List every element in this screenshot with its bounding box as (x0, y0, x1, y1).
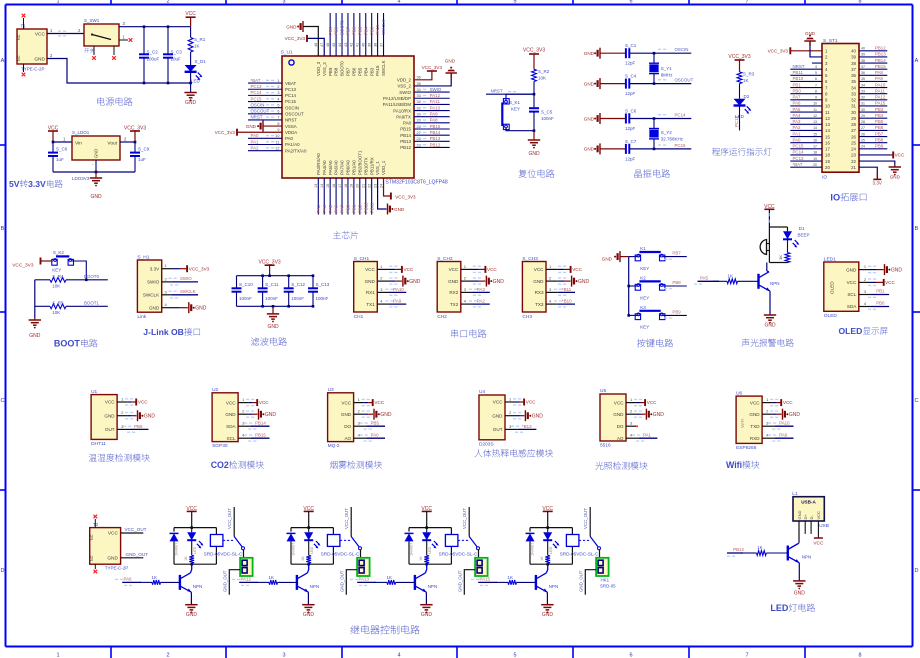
header left pin 2 GND2 (810, 41, 822, 57)
svg-text:PA6: PA6 (124, 576, 133, 581)
svg-text:10K: 10K (52, 310, 60, 315)
svg-text:NRST: NRST (793, 64, 805, 69)
emitter wire relay 4 (546, 592, 548, 605)
svg-text:VCC: VCC (813, 541, 824, 547)
svg-text:DO: DO (344, 424, 351, 429)
svg-text:15: 15 (813, 132, 817, 136)
ground GND filter (272, 306, 274, 314)
svg-text:K2: K2 (640, 276, 646, 281)
svg-text:IO: IO (822, 175, 827, 181)
svg-text:SCL: SCL (227, 436, 236, 441)
svg-text:WIFI: WIFI (740, 418, 745, 427)
svg-text:4: 4 (397, 0, 400, 5)
header left pin 11 PA5 (790, 111, 822, 113)
svg-text:*B11: *B11 (562, 287, 572, 292)
svg-text:VSS_2: VSS_2 (397, 84, 411, 89)
left rail boot (34, 280, 36, 318)
svg-text:PA9: PA9 (430, 112, 439, 117)
svg-text:47: 47 (320, 43, 324, 47)
svg-text:GND: GND (794, 591, 806, 597)
svg-text:VCC_OUT: VCC_OUT (227, 508, 232, 529)
svg-text:DO: DO (617, 424, 624, 429)
svg-text:CO2: CO2 (211, 460, 229, 470)
svg-text:28: 28 (851, 122, 856, 127)
svg-text:16: 16 (825, 140, 830, 145)
svg-text:PA15: PA15 (480, 576, 491, 581)
key K3 (629, 314, 639, 316)
svg-text:VCC: VCC (226, 400, 236, 405)
svg-text:VCC: VCC (493, 400, 503, 405)
header right pin 29 PB4 (859, 117, 887, 119)
svg-text:PB6: PB6 (875, 125, 884, 130)
svg-text:BOOT0: BOOT0 (84, 274, 99, 279)
base resistor 1K led lamp (741, 552, 757, 554)
svg-text:GND: GND (225, 412, 236, 417)
header right pin 40 PB12 (859, 50, 887, 52)
title 滤波电路 (251, 337, 259, 345)
svg-text:2: 2 (166, 653, 169, 658)
svg-text:TYPE-C-2P: TYPE-C-2P (105, 566, 129, 571)
svg-text:37: 37 (379, 43, 383, 47)
svg-text:USB-A: USB-A (801, 500, 816, 505)
svg-text:TX1: TX1 (366, 302, 375, 307)
relay 3 switch lever (458, 539, 469, 541)
svg-text:S_K2: S_K2 (53, 250, 65, 255)
svg-text:VCC: VCC (487, 267, 497, 272)
svg-text:VCC_3V3: VCC_3V3 (285, 36, 306, 41)
svg-text:37: 37 (851, 67, 856, 72)
svg-text:35: 35 (861, 77, 865, 81)
svg-text:VDD_3: VDD_3 (316, 61, 321, 76)
svg-text:PA11: PA11 (430, 99, 441, 104)
svg-text:VCC: VCC (750, 400, 760, 405)
svg-text:30: 30 (861, 108, 865, 112)
svg-text:PA13: PA13 (359, 576, 370, 581)
svg-text:37: 37 (861, 65, 865, 69)
svg-text:VCC_3V3: VCC_3V3 (12, 262, 34, 268)
svg-text:CH3: CH3 (522, 314, 532, 320)
svg-text:100nF: 100nF (265, 296, 278, 301)
svg-text:PB6: PB6 (351, 67, 356, 76)
svg-text:GND: GND (584, 81, 595, 86)
svg-text:GND: GND (144, 414, 156, 420)
svg-text:RX1: RX1 (366, 290, 375, 295)
header right pin 31 PA15 (859, 105, 887, 107)
svg-text:PB10: PB10 (793, 76, 804, 81)
svg-text:GND: GND (380, 412, 392, 418)
svg-text:VCC: VCC (404, 267, 414, 272)
svg-text:12pF: 12pF (625, 91, 636, 96)
svg-text:GND: GND (584, 116, 595, 121)
svg-text:2: 2 (277, 85, 279, 89)
net NRST wire (486, 93, 534, 95)
svg-text:PA10/RX: PA10/RX (393, 108, 411, 113)
capacitor S_C12 100nF (288, 276, 290, 289)
svg-text:S_C10: S_C10 (239, 282, 253, 287)
header left pin 13 PA3 (790, 123, 822, 125)
svg-text:PB1: PB1 (793, 82, 802, 87)
svg-text:GND: GND (584, 51, 595, 56)
svg-text:PC14: PC14 (251, 90, 263, 95)
svg-text:20: 20 (356, 184, 360, 188)
emitter to ground alarm (769, 291, 771, 315)
transistor Q1 NPN relay (179, 575, 181, 590)
svg-text:1K: 1K (194, 44, 200, 49)
title 继电器控制电路 (351, 625, 360, 633)
svg-text:1K: 1K (540, 556, 544, 561)
svg-text:39: 39 (861, 53, 865, 57)
svg-text:DHT11: DHT11 (91, 441, 106, 447)
svg-text:34: 34 (851, 85, 856, 90)
wire gnd to S_C7 (600, 148, 626, 150)
svg-text:TX3: TX3 (535, 302, 544, 307)
svg-text:PA15: PA15 (375, 24, 380, 35)
header right pin 38 PB14 (859, 62, 887, 64)
svg-text:PB5: PB5 (875, 119, 884, 124)
svg-text:KEY: KEY (52, 268, 61, 273)
svg-text:D-: D- (809, 515, 814, 520)
svg-text:PB8: PB8 (875, 137, 884, 142)
svg-text:1K: 1K (269, 575, 274, 580)
svg-text:NC: NC (90, 555, 94, 561)
terminal block HK4 (599, 550, 601, 558)
LED D1 BEEP (787, 227, 789, 231)
header S_CH2 body (437, 262, 461, 313)
svg-text:PA15: PA15 (875, 101, 886, 106)
svg-text:PA9: PA9 (393, 299, 402, 304)
capacitor S_C9 104 (134, 142, 136, 153)
svg-text:TXD: TXD (750, 424, 760, 429)
svg-text:13: 13 (314, 184, 318, 188)
svg-text:K1: K1 (640, 246, 646, 251)
svg-text:AO: AO (617, 436, 624, 441)
svg-text:1K: 1K (301, 556, 305, 561)
svg-text:AO: AO (344, 436, 351, 441)
svg-text:VCC_OUT: VCC_OUT (344, 508, 349, 529)
buzzer LS1 (768, 227, 770, 263)
svg-text:GND: GND (584, 147, 595, 152)
svg-text:TX2: TX2 (450, 302, 459, 307)
svg-text:VSS_3: VSS_3 (322, 62, 327, 76)
resistor 1K relay led 1 (191, 540, 193, 555)
svg-text:S_LDO1: S_LDO1 (72, 130, 90, 135)
svg-text:5: 5 (815, 71, 817, 75)
svg-text:23: 23 (851, 153, 856, 158)
svg-text:S_C11: S_C11 (265, 282, 279, 287)
svg-text:15: 15 (326, 184, 330, 188)
svg-text:SWIO: SWIO (430, 87, 442, 92)
svg-text:GND: GND (890, 175, 901, 180)
svg-text:*B13: *B13 (522, 424, 532, 429)
svg-text:GND: GND (303, 612, 315, 618)
svg-text:VCC: VCC (259, 400, 269, 405)
svg-text:SRD-05VDC-SL-C: SRD-05VDC-SL-C (560, 551, 599, 556)
svg-text:PC13: PC13 (793, 156, 805, 161)
svg-text:GND: GND (789, 412, 801, 418)
svg-text:12: 12 (825, 116, 830, 121)
svg-text:PB3: PB3 (369, 26, 374, 35)
svg-text:PB0: PB0 (793, 88, 802, 93)
module U4 D203S body (479, 395, 505, 440)
svg-text:18: 18 (825, 153, 830, 158)
svg-text:1K: 1K (387, 575, 392, 580)
svg-text:LED1: LED1 (824, 257, 836, 263)
svg-text:NPN: NPN (770, 281, 780, 286)
svg-text:PB7: PB7 (672, 251, 681, 256)
svg-text:VCC_OUT: VCC_OUT (462, 508, 467, 529)
svg-text:36: 36 (417, 76, 421, 80)
svg-text:PB9: PB9 (328, 67, 333, 76)
svg-text:3.3V: 3.3V (28, 179, 46, 189)
svg-text:100nF: 100nF (316, 296, 329, 301)
svg-text:NPN: NPN (549, 584, 559, 589)
header left pin 10 PA6 (790, 105, 822, 107)
svg-text:26: 26 (861, 132, 865, 136)
svg-text:PA4: PA4 (793, 113, 802, 118)
svg-text:38: 38 (861, 59, 865, 63)
display LED1 OLED body (824, 262, 859, 311)
svg-text:PC13: PC13 (251, 84, 263, 89)
svg-text:PA12/USB/DP: PA12/USB/DP (383, 96, 411, 101)
svg-text:PA1/A0: PA1/A0 (285, 142, 300, 147)
diode 1N4007 relay 1 (170, 533, 179, 541)
title 温湿度检测模块 (89, 454, 97, 462)
svg-text:PA3/RX/A0: PA3/RX/A0 (316, 153, 321, 175)
net GND_OUT wire relay 2 (346, 570, 357, 595)
svg-text:10: 10 (813, 102, 817, 106)
svg-text:PA9: PA9 (779, 433, 788, 438)
svg-text:D2: D2 (744, 94, 750, 99)
resistor S_R2 10K (532, 69, 537, 81)
svg-text:6: 6 (629, 0, 632, 5)
svg-text:GND: GND (613, 412, 624, 417)
svg-text:5V: 5V (9, 179, 20, 189)
header right pin 36 PA8 (859, 74, 887, 76)
T2 bottom NC stub (94, 564, 96, 569)
svg-text:Link: Link (137, 314, 146, 320)
svg-text:S_R1: S_R1 (194, 37, 206, 42)
svg-text:LED: LED (191, 79, 201, 84)
net PC13 wire run led (739, 106, 741, 131)
svg-text:A: A (915, 58, 919, 64)
filter top rail (237, 275, 314, 277)
header left pin 7 PB1 (790, 87, 822, 89)
svg-text:12pF: 12pF (625, 126, 636, 131)
svg-text:3: 3 (282, 653, 285, 658)
svg-text:38: 38 (373, 43, 377, 47)
svg-text:VCC_3V3: VCC_3V3 (189, 266, 210, 271)
svg-text:VCC: VCC (185, 11, 196, 17)
svg-text:PB11/RX: PB11/RX (369, 157, 374, 175)
svg-text:22: 22 (367, 184, 371, 188)
svg-text:PB11: PB11 (793, 70, 804, 75)
svg-text:GND: GND (185, 100, 197, 106)
resistor 1K relay led 2 (308, 540, 310, 555)
svg-text:D: D (1, 568, 5, 574)
svg-text:S_C4: S_C4 (625, 74, 637, 79)
svg-text:SDA: SDA (226, 424, 236, 429)
svg-text:KEY: KEY (640, 266, 649, 271)
svg-text:T2: T2 (93, 522, 99, 527)
svg-text:PA0: PA0 (793, 137, 802, 142)
header left pin 3 nc (812, 62, 822, 64)
svg-text:S_C6: S_C6 (625, 109, 637, 114)
svg-text:GND_OUT: GND_OUT (339, 570, 344, 592)
svg-text:ESP8266: ESP8266 (736, 445, 757, 451)
capacitor S_C3 10uF (167, 27, 169, 55)
svg-text:PB14: PB14 (430, 130, 441, 135)
header left pin 1 VCC_3V3 (790, 50, 822, 52)
emitter wire relay 3 (425, 592, 427, 605)
L1 pin D+ stub (804, 521, 806, 534)
net PB8 wire (663, 285, 687, 287)
svg-text:SWCLK: SWCLK (143, 293, 160, 298)
svg-text:S_CH1: S_CH1 (354, 256, 370, 262)
ground GND boot (34, 318, 36, 320)
header S_CH1 body (354, 262, 378, 313)
svg-text:U1: U1 (91, 389, 97, 395)
svg-text:VCC_OUT: VCC_OUT (125, 527, 147, 532)
base resistor 1K alarm (713, 280, 727, 282)
svg-text:1N4007: 1N4007 (531, 543, 535, 556)
svg-text:IO: IO (830, 193, 840, 203)
svg-text:J-Link OB: J-Link OB (143, 327, 184, 337)
svg-text:11: 11 (276, 140, 280, 144)
svg-text:GND: GND (602, 256, 613, 261)
svg-text:OSCIN: OSCIN (675, 47, 689, 52)
header right pin 32 PA12 (859, 99, 887, 101)
svg-text:Vin: Vin (75, 141, 82, 147)
svg-text:31: 31 (861, 102, 865, 106)
header right pin 28 PB5 (859, 123, 887, 125)
svg-text:40: 40 (362, 43, 366, 47)
resistor 1K alarm collector (787, 239, 789, 252)
svg-text:VCC: VCC (885, 280, 895, 285)
svg-text:8: 8 (858, 0, 861, 5)
svg-text:PB0/A0: PB0/A0 (346, 160, 351, 175)
svg-text:16: 16 (332, 184, 336, 188)
svg-text:8: 8 (277, 122, 279, 126)
svg-text:GND: GND (104, 413, 115, 418)
net PB12 wire led lamp (727, 552, 743, 554)
svg-text:VCC: VCC (35, 32, 46, 38)
capacitor S_C2 100uF (143, 27, 145, 55)
title 串口电路 (451, 329, 458, 337)
svg-text:PA11: PA11 (875, 88, 886, 93)
svg-text:PB12: PB12 (875, 46, 886, 51)
svg-text:44: 44 (338, 43, 342, 47)
svg-text:PC14: PC14 (675, 113, 687, 118)
svg-text:PB7: PB7 (346, 67, 351, 76)
LED relay 4 (547, 528, 549, 533)
svg-text:S_R3: S_R3 (743, 72, 755, 77)
header left pin 18 PC14 (790, 154, 822, 156)
svg-text:PC15: PC15 (793, 144, 805, 149)
wire LDO GND pin to rail (95, 160, 97, 172)
ground GND relay 1 (185, 604, 197, 606)
svg-text:18: 18 (813, 151, 817, 155)
wire S_C7 to net PC15 (630, 148, 691, 150)
svg-text:PA2: PA2 (251, 145, 260, 150)
svg-text:PA5: PA5 (793, 107, 802, 112)
svg-text:GND: GND (286, 24, 297, 29)
svg-text:7: 7 (815, 83, 817, 87)
svg-text:17: 17 (825, 147, 830, 152)
svg-text:VCC: VCC (572, 267, 582, 272)
relay 1 switch lever (223, 539, 234, 541)
svg-text:2: 2 (166, 0, 169, 5)
svg-text:PA3: PA3 (793, 119, 802, 124)
svg-text:9: 9 (277, 128, 279, 132)
svg-text:SWCLK: SWCLK (381, 60, 386, 76)
resistor S_R5 10K (35, 305, 50, 307)
svg-text:OLED: OLED (830, 281, 835, 294)
module U5 5516 body (600, 394, 626, 441)
wire LDO Vout to VCC_3V3 (120, 141, 135, 143)
svg-text:GND: GND (578, 279, 590, 285)
terminal block HK3 (478, 550, 480, 558)
net PA6 wire relay 1 (122, 581, 141, 583)
svg-text:43: 43 (344, 43, 348, 47)
svg-text:D1: D1 (799, 226, 805, 231)
svg-text:OSCIN: OSCIN (251, 102, 265, 107)
svg-text:NRST: NRST (491, 89, 503, 94)
svg-text:PB15: PB15 (255, 433, 266, 438)
header left pin 9 PA7 (790, 99, 822, 101)
svg-text:SWCLK: SWCLK (381, 19, 386, 35)
svg-text:GND: GND (149, 305, 160, 310)
svg-text:PA0: PA0 (285, 136, 294, 141)
svg-text:GND_OUT: GND_OUT (222, 570, 227, 592)
net PB7 wire (663, 256, 687, 258)
svg-text:VDDA: VDDA (285, 130, 297, 135)
resistor S_R1 1K (188, 38, 193, 53)
svg-text:100nF: 100nF (291, 296, 304, 301)
svg-text:LED: LED (770, 603, 789, 613)
header right pin 25 PB8 (859, 142, 887, 144)
svg-text:HK1: HK1 (601, 578, 610, 583)
filter bottom rail (237, 305, 314, 307)
emitter wire relay 1 (190, 592, 192, 605)
header right pin 34 PA10 (859, 87, 887, 89)
module U6 ESP8266 body (736, 396, 762, 443)
svg-text:VCC_3V3: VCC_3V3 (215, 130, 236, 135)
svg-text:GND: GND (421, 612, 433, 618)
svg-text:1K: 1K (757, 545, 762, 550)
svg-text:S_R2: S_R2 (538, 69, 550, 74)
svg-text:SWCLK: SWCLK (180, 289, 196, 294)
svg-text:*BAT: *BAT (251, 78, 261, 83)
key K2 (629, 285, 639, 287)
header S_CH3 body (522, 262, 546, 313)
svg-text:S_C9: S_C9 (138, 147, 150, 152)
net PA5 wire alarm (698, 280, 720, 282)
svg-text:VCC_3V3: VCC_3V3 (523, 48, 545, 54)
svg-text:S_Y1: S_Y1 (661, 66, 673, 71)
svg-text:MQ-2: MQ-2 (328, 443, 340, 449)
svg-text:PB12: PB12 (400, 145, 411, 150)
svg-text:18: 18 (344, 184, 348, 188)
header right pin 33 PA11 (859, 93, 887, 95)
svg-text:5: 5 (513, 653, 516, 658)
svg-text:PA12: PA12 (430, 93, 441, 98)
wire gnd to S_C1 (600, 52, 626, 54)
svg-text:PB5: PB5 (371, 421, 380, 426)
ground GND led lamp (793, 580, 805, 582)
svg-text:GND: GND (493, 279, 505, 285)
net PB9 wire (663, 314, 687, 316)
svg-text:GND_OUT: GND_OUT (578, 570, 583, 592)
